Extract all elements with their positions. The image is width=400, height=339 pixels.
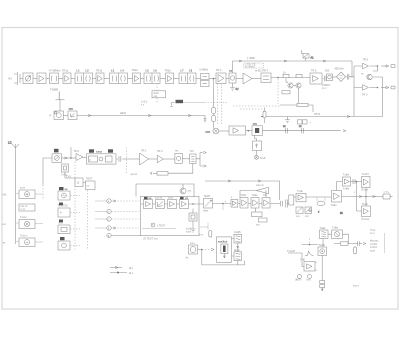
wire top audio bus xyxy=(205,180,280,200)
mid cluster unit Q11 xyxy=(58,203,71,218)
ground xyxy=(308,208,343,215)
wire transistor stage xyxy=(286,78,299,104)
filter FL3 double section xyxy=(110,69,128,84)
inductor L9 tuning coil xyxy=(56,92,65,100)
mixer U2 xyxy=(206,128,219,134)
mixer stage M0 xyxy=(52,149,62,163)
filter FL5 double section xyxy=(179,69,196,84)
wire xyxy=(59,100,61,111)
wire output split xyxy=(196,151,206,167)
svg-text:x xx: x xx xyxy=(21,208,26,211)
filter Z10 xyxy=(320,227,329,239)
svg-text:L7: L7 xyxy=(181,69,185,73)
wire from oscillator up to BFO bus xyxy=(232,61,234,73)
svg-text:(⊞)Tx: (⊞)Tx xyxy=(295,279,302,282)
svg-text:Cx⊞5: Cx⊞5 xyxy=(234,231,241,234)
resistor R41 xyxy=(334,242,353,246)
resistor R13 xyxy=(282,91,290,94)
svg-text:x⊙x: x⊙x xyxy=(190,242,195,245)
svg-text:TxxE: TxxE xyxy=(297,190,303,193)
label MHz pointer xyxy=(170,100,183,107)
divider stage D2 xyxy=(66,176,83,187)
filter Z4 xyxy=(253,141,262,151)
svg-text:Tx⊞x: Tx⊞x xyxy=(252,194,259,197)
wire xyxy=(65,178,86,183)
svg-text:L1: L1 xyxy=(77,69,81,73)
svg-text:Txx⊞: Txx⊞ xyxy=(362,203,369,206)
wire xyxy=(223,254,225,259)
svg-text:xx xxxxx: xx xxxxx xyxy=(245,66,255,69)
wire xyxy=(256,151,258,156)
capacitor C51 xyxy=(281,201,283,207)
capacitor C22 xyxy=(346,74,351,80)
svg-text:TR-1: TR-1 xyxy=(141,150,147,153)
svg-text:C: C xyxy=(108,211,110,214)
transformer T3 xyxy=(234,231,242,243)
svg-text:Txxxx: Txxxx xyxy=(20,216,27,219)
oscillator stage G2 xyxy=(229,69,236,83)
dashed cluster verticals xyxy=(75,162,88,250)
transistor Q4 xyxy=(296,83,301,88)
resistor R42 vertical xyxy=(354,246,357,254)
diplexer Z1 stacked pair xyxy=(200,69,210,87)
input port B xyxy=(107,233,141,238)
wire dashed drop xyxy=(277,79,279,104)
svg-text:bxxP: bxxP xyxy=(260,157,266,160)
feedback op-amp U7 xyxy=(240,184,269,198)
dashed xyxy=(156,98,158,104)
capacitor C32 xyxy=(283,125,287,133)
wire xyxy=(163,158,175,160)
annotation block right xyxy=(370,229,385,253)
antenna ANT2 xyxy=(8,142,19,149)
svg-text:L4: L4 xyxy=(121,69,125,73)
wire xyxy=(182,158,189,160)
svg-text:Tx⊞X: Tx⊞X xyxy=(319,244,326,247)
knob K1 xyxy=(295,275,302,282)
wire xyxy=(238,203,280,205)
amplifier V31 xyxy=(331,191,342,208)
key S1 morse key xyxy=(302,50,315,61)
svg-text:TxX: TxX xyxy=(190,150,195,153)
chopper Q7 xyxy=(221,244,228,254)
pot RP3 xyxy=(305,207,312,218)
synthesizer block U6 xyxy=(87,149,117,164)
wire hook below Z3 xyxy=(255,135,257,141)
op-amp U4 xyxy=(363,59,369,69)
AGC box xyxy=(152,91,166,98)
note box telegraphy xyxy=(244,63,264,69)
svg-text:TEXT: TEXT xyxy=(86,178,93,181)
svg-text:xxxXxx: xxxXxx xyxy=(218,240,228,244)
wire xyxy=(236,78,243,80)
wire mixer feed vertical xyxy=(213,79,215,108)
svg-text:+50: +50 xyxy=(2,194,7,197)
buffer G1b xyxy=(68,107,77,120)
amplifier V3 xyxy=(96,70,104,84)
resistor R23 vertical xyxy=(263,108,266,124)
wire bottom loop xyxy=(202,250,245,265)
filter FL4 double section xyxy=(144,69,160,84)
svg-text:xxxx: xxxx xyxy=(168,197,174,200)
svg-text:AFC: AFC xyxy=(120,111,127,115)
filter FL2 double section xyxy=(75,69,93,84)
op-amp U5 xyxy=(362,85,369,97)
svg-text:ƒ 200: ƒ 200 xyxy=(247,56,255,60)
wire xyxy=(333,76,337,78)
wire meter input xyxy=(302,239,319,246)
svg-text:Tx⊞x: Tx⊞x xyxy=(343,188,350,191)
dashed AGC return lines xyxy=(233,105,280,107)
wire feedback lower xyxy=(168,164,193,174)
svg-text:TR 9: TR 9 xyxy=(362,94,368,97)
wire amp row xyxy=(141,203,204,205)
wire split xyxy=(354,181,362,211)
central unit frame U10 xyxy=(141,197,200,236)
resistor R31 xyxy=(199,223,212,238)
wire with tap xyxy=(213,201,232,211)
wire BFO top bus xyxy=(233,60,353,62)
connector X2 headphone tap xyxy=(255,155,266,160)
wire xyxy=(16,193,44,196)
svg-text:(Txxxx): (Txxxx) xyxy=(361,218,369,221)
filter Z2 two row xyxy=(261,70,271,83)
wire xyxy=(328,234,349,243)
svg-text:⊙xx: ⊙xx xyxy=(306,279,311,282)
volume pot RP1 xyxy=(204,195,213,213)
amplifier V26 xyxy=(251,194,259,208)
dashed control line xyxy=(126,148,138,177)
crystal Y1 xyxy=(61,164,69,177)
mid cluster unit Q12 xyxy=(58,220,70,234)
wire xyxy=(33,78,37,80)
svg-text:365: 365 xyxy=(69,107,74,111)
capacitor C52 xyxy=(286,200,288,208)
svg-text:MIX: MIX xyxy=(206,130,211,134)
svg-text:L6: L6 xyxy=(154,69,158,73)
amplifier V11 xyxy=(157,150,163,163)
wire xyxy=(64,172,66,178)
wire xyxy=(141,78,145,80)
wire spur line xyxy=(183,101,205,103)
svg-text:TxxxxP: TxxxxP xyxy=(287,250,296,253)
divider stage D3 xyxy=(86,178,96,190)
wire internal bus xyxy=(142,228,176,230)
amplifier V8 IF xyxy=(229,126,246,135)
transformer T2 oval xyxy=(317,197,325,206)
wire with junction xyxy=(62,157,77,159)
capacitor C61 xyxy=(353,241,366,246)
wire xyxy=(174,78,180,80)
ground xyxy=(191,229,196,232)
svg-text:TR-X: TR-X xyxy=(157,150,163,153)
svg-text:TR 8: TR 8 xyxy=(363,59,369,62)
resistor R11 xyxy=(283,72,289,78)
filter FL1 xyxy=(49,70,61,84)
op-amp V34 xyxy=(361,203,371,221)
wire xyxy=(288,245,304,267)
oscillator stage G4 xyxy=(175,150,182,164)
capacitor C34 to ground xyxy=(285,117,290,123)
svg-text:⊞x⊞: ⊞x⊞ xyxy=(234,249,240,252)
wire AFC line xyxy=(77,111,205,117)
wire xyxy=(226,78,229,80)
svg-text:a) xxx: a) xxx xyxy=(131,173,138,176)
transformer T1 xyxy=(287,195,296,205)
wire xyxy=(16,222,44,225)
wire product detector split xyxy=(350,66,362,117)
wire chain2 input corner xyxy=(43,158,52,185)
wire xyxy=(149,158,158,160)
diode pair D1 xyxy=(298,120,312,125)
amplifier V24 xyxy=(231,196,238,207)
svg-text:Txxx-x: Txxx-x xyxy=(20,235,28,238)
svg-text:47-58MHz: 47-58MHz xyxy=(49,70,61,73)
svg-text:R: R xyxy=(50,115,52,118)
capacitor C41 xyxy=(116,156,124,161)
svg-text:xxxx: xxxx xyxy=(186,231,192,234)
wire xyxy=(64,115,69,117)
wire xyxy=(83,157,87,159)
ground xyxy=(151,172,157,175)
wire with junction node K1 xyxy=(271,77,310,79)
wire xyxy=(213,114,215,116)
output arrows NF2 xyxy=(381,86,395,89)
amplifier V5 xyxy=(165,70,174,84)
amplifier V1 xyxy=(37,73,46,84)
wire xyxy=(160,78,166,80)
wire xyxy=(71,78,75,80)
resistor R12 xyxy=(296,74,302,77)
svg-text:L2: L2 xyxy=(86,69,90,73)
svg-text:Tx⊞x: Tx⊞x xyxy=(320,227,327,230)
dashed cluster stubs xyxy=(70,196,80,246)
meter T circle xyxy=(151,223,166,228)
wire xyxy=(16,241,44,244)
resistor R24 xyxy=(157,172,168,176)
input port E xyxy=(95,226,139,231)
output arrows NF1 xyxy=(381,65,395,68)
svg-text:2.Z: 2.Z xyxy=(8,142,12,145)
filter Z5 xyxy=(190,150,197,164)
wire vertical link xyxy=(365,188,367,207)
feedback resistor R32 xyxy=(252,208,268,227)
wire mute feed xyxy=(136,184,194,197)
amplifier V32 xyxy=(343,174,351,191)
buffer stage G3 xyxy=(322,70,333,91)
amplifier V2 xyxy=(62,70,71,84)
left cluster unit P3 xyxy=(2,216,35,229)
wire detector output line xyxy=(261,115,382,117)
amplifier V25 xyxy=(240,194,248,208)
wire xyxy=(124,158,140,160)
transistor Q6 mute xyxy=(180,188,192,194)
amplifier V9 xyxy=(74,150,84,161)
wire xyxy=(128,78,133,80)
wire op-amp outputs xyxy=(370,65,379,88)
filter Z3 455kHz xyxy=(252,122,263,136)
connector J1 antenna input jack xyxy=(14,72,23,85)
svg-text:455: 455 xyxy=(253,122,258,126)
wire links xyxy=(232,239,239,256)
wire xyxy=(59,78,64,80)
svg-text:xx x: xx x xyxy=(322,87,327,90)
mid cluster unit Q13 xyxy=(58,237,70,250)
svg-text:TR31: TR31 xyxy=(314,113,321,116)
legend arrow line xyxy=(110,266,134,270)
svg-text:TR X: TR X xyxy=(263,70,269,73)
wire Q5 links xyxy=(373,66,383,117)
wire xyxy=(306,196,332,198)
wire xyxy=(213,122,215,129)
wire xyxy=(219,130,229,132)
svg-text:Tx⊞x: Tx⊞x xyxy=(331,204,338,207)
svg-text:xxx-xx: xxx-xx xyxy=(155,197,163,200)
svg-text:4-: 4- xyxy=(60,212,62,215)
input port A xyxy=(95,199,139,204)
svg-text:Tx⊞x: Tx⊞x xyxy=(343,174,350,177)
wire xyxy=(104,78,110,80)
amplifier V22 xyxy=(168,197,177,209)
wire xyxy=(93,78,97,80)
transformer T4 xyxy=(234,249,242,261)
wire with junction xyxy=(209,78,216,80)
mid cluster unit Q10 xyxy=(58,187,70,200)
svg-text:TR 3: TR 3 xyxy=(216,69,222,72)
svg-text:TR2b: TR2b xyxy=(165,70,172,73)
wire IF output line xyxy=(263,130,347,132)
transistor Q5 xyxy=(361,73,373,80)
attenuator A1 xyxy=(23,73,33,84)
svg-text:TR1b: TR1b xyxy=(96,70,103,73)
amplifier V10 xyxy=(140,150,149,166)
wire main out xyxy=(342,195,382,197)
label 1+0.1 MHz xyxy=(141,101,148,107)
svg-text:xxxx: xxxx xyxy=(370,249,376,252)
squelch unit Z6 xyxy=(189,209,197,229)
svg-text:TxxXX: TxxXX xyxy=(362,173,370,176)
amplifier V6 broadband xyxy=(243,70,263,85)
svg-text:xx: xx xyxy=(65,188,68,191)
left cluster unit P2 xyxy=(19,204,35,211)
power unit frame U11 xyxy=(217,237,232,262)
capacitor C53 xyxy=(353,179,355,184)
amplifier V27 xyxy=(262,194,270,208)
input port C1 xyxy=(95,209,139,214)
ring mixer U3 diode ring xyxy=(335,68,346,82)
amplifier TR2 main IF amp xyxy=(216,69,226,84)
wire xyxy=(252,78,261,80)
svg-text:TR2a: TR2a xyxy=(132,69,139,72)
resistor R14 on detector line xyxy=(280,103,313,112)
svg-text:XT: XT xyxy=(229,69,233,73)
svg-text:TR-F: TR-F xyxy=(74,150,80,153)
output jack X3 xyxy=(381,191,393,199)
detector U12 xyxy=(332,227,343,239)
svg-text:C: C xyxy=(108,218,110,221)
wire tuning drop xyxy=(70,147,72,158)
wire xyxy=(46,78,50,80)
svg-text:⊞xx: ⊞xx xyxy=(204,210,209,213)
svg-text:xxxx: xxxx xyxy=(20,187,26,190)
pot RP2 xyxy=(296,207,303,218)
wire BFO bus corner into mixer xyxy=(350,61,352,77)
svg-text:Tx⊞x: Tx⊞x xyxy=(332,227,339,230)
wire left supply bus xyxy=(15,148,17,244)
svg-text:xx: xx xyxy=(185,197,188,200)
regulator V21 xyxy=(155,197,165,209)
amplifier V4 xyxy=(132,69,141,84)
svg-text:x T x: x T x xyxy=(384,191,390,194)
meter P5 xyxy=(318,244,327,256)
amplifier V30 xyxy=(296,190,306,202)
svg-text:TxRx: TxRx xyxy=(241,194,248,197)
svg-text:455 kHz: 455 kHz xyxy=(335,68,345,71)
svg-text:TUNE: TUNE xyxy=(50,88,58,92)
svg-text:x⊕x xx: x⊕x xx xyxy=(256,184,265,187)
amplifier V7 xyxy=(310,70,322,85)
label texts xyxy=(186,228,192,234)
oscillator G1 VFO xyxy=(50,111,64,120)
svg-text:x TEXT: x TEXT xyxy=(157,225,166,228)
amplifier V40 xyxy=(300,259,315,272)
generator M1 xyxy=(186,242,198,260)
capacitor C62 electrolytic xyxy=(316,261,325,291)
svg-text:L3: L3 xyxy=(111,69,115,73)
resistor R22 xyxy=(212,116,216,122)
left cluster unit P4 xyxy=(2,235,35,247)
waveform pip xyxy=(305,251,314,256)
amplifier V20 xyxy=(144,197,153,209)
svg-text:xx: xx xyxy=(149,197,152,200)
op-amp V33 xyxy=(361,173,370,192)
svg-text:TR1a: TR1a xyxy=(62,70,69,73)
svg-text:xx x: xx x xyxy=(370,232,375,235)
ground xyxy=(230,83,239,91)
svg-text:L5: L5 xyxy=(146,69,150,73)
input port C2 xyxy=(95,217,139,222)
svg-text:xxxx: xxxx xyxy=(96,150,102,153)
knob K2 xyxy=(306,275,312,282)
wire with junction xyxy=(198,248,215,250)
wire xyxy=(337,182,362,191)
svg-text:0.4MHz: 0.4MHz xyxy=(200,69,209,72)
capacitor C33 xyxy=(299,125,303,133)
legend dot line xyxy=(110,272,134,275)
left cluster supply unit P1 xyxy=(2,187,35,199)
capacitor C21 xyxy=(322,76,326,81)
svg-text:0V: 0V xyxy=(236,88,239,91)
svg-text:(Txxx): (Txxx) xyxy=(361,189,368,192)
svg-text:xxx-x: xxx-x xyxy=(353,285,360,288)
wire xyxy=(196,78,201,80)
svg-text:TR 6: TR 6 xyxy=(311,70,317,73)
transistor Q3 xyxy=(288,83,293,88)
svg-text:L8: L8 xyxy=(189,69,193,73)
svg-text:200: 200 xyxy=(325,70,330,73)
amplifier V23 xyxy=(180,197,189,209)
svg-text:TECH: TECH xyxy=(204,195,211,198)
AGC detector dashed drop xyxy=(156,84,158,91)
capacitor C31 at AFC end xyxy=(204,116,207,123)
wire with junction xyxy=(246,130,253,132)
resistor R21 xyxy=(212,108,216,114)
svg-text:(T) TEXT xxx: (T) TEXT xxx xyxy=(143,238,158,241)
wire xyxy=(321,239,324,281)
dashed AGC feed wires to TR2 xyxy=(218,84,222,126)
svg-text:IN: IN xyxy=(9,77,12,81)
